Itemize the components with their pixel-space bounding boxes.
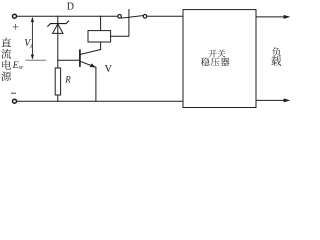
svg-text:D: D: [67, 1, 74, 12]
svg-text:Esr: Esr: [12, 61, 24, 71]
switch contact left: [118, 14, 122, 18]
wire base: [58, 59, 80, 61]
switching regulator box: [183, 10, 256, 108]
wire output bottom arrow: [256, 99, 287, 101]
plus sign: [13, 25, 18, 30]
Vz reference bar: [26, 59, 46, 61]
svg-text:V: V: [105, 64, 113, 75]
wire top rail: [17, 15, 118, 17]
svg-text:Vz: Vz: [24, 38, 33, 50]
Vz dimension arrow: [31, 17, 34, 60]
wire relay collector stub: [100, 42, 102, 50]
wire switch to regulator: [147, 15, 183, 17]
relay coil box: [88, 31, 111, 42]
label 直流电源 (DC power source): [1, 38, 11, 47]
wire output top arrow: [256, 16, 287, 18]
label 开关稳压器 (switching regulator): [209, 50, 217, 58]
wire zener branch: [57, 16, 59, 68]
transistor V (NPN): [80, 50, 101, 102]
switch lever: [122, 16, 143, 19]
switch contact right: [143, 14, 147, 18]
terminal + (top-left): [13, 14, 17, 18]
terminal - (bottom-left): [13, 99, 17, 103]
wire relay top lead: [100, 16, 102, 30]
minus sign: [12, 92, 16, 94]
wire bottom rail: [17, 100, 183, 102]
wire resistor bottom lead: [57, 95, 59, 101]
zener diode D: [48, 21, 69, 33]
wire relay to contact linkage: [111, 10, 129, 37]
label 负载 (load): [272, 47, 281, 56]
svg-text:R: R: [64, 75, 71, 85]
resistor R: [55, 68, 60, 95]
